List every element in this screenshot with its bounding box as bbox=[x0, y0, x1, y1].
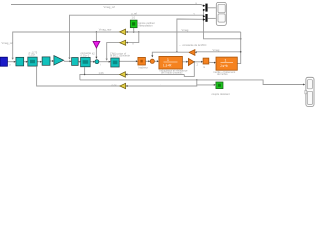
svg-text:1: 1 bbox=[225, 59, 227, 63]
junction dot magenta branch bbox=[96, 31, 97, 32]
svg-text:Vmag_raw: Vmag_raw bbox=[99, 27, 112, 31]
gain teal g1 (right) bbox=[54, 56, 64, 66]
wire R0 speed to displays bbox=[80, 80, 304, 85]
wire back-emf up-branch to mux2 bbox=[177, 19, 204, 52]
block orange J mechanical 1/(Js+b) bbox=[216, 57, 237, 70]
scope1 top-right bbox=[216, 2, 226, 25]
svg-text:0.06: 0.06 bbox=[112, 83, 118, 87]
svg-text:0.25z: 0.25z bbox=[29, 53, 36, 57]
svg-text:la MCC convertie: la MCC convertie bbox=[110, 54, 130, 58]
block orange G gain bbox=[138, 57, 146, 65]
junction dot E stub bbox=[84, 74, 85, 75]
svg-text:hacheur: hacheur bbox=[139, 65, 149, 69]
arrowhead into scope2 bbox=[303, 84, 305, 86]
junction dot green1 stub bbox=[133, 31, 134, 32]
wires mux to scope1 bbox=[208, 8, 216, 19]
block teal F quantizer bbox=[111, 58, 119, 67]
wire R1 from E state port loop bbox=[80, 62, 194, 80]
arrowhead W-main left end down bbox=[12, 58, 14, 60]
arrowhead into sum2 top bbox=[151, 55, 153, 57]
svg-text:Vmag: Vmag bbox=[182, 28, 189, 32]
gain orange Km (right) bbox=[188, 58, 194, 65]
svg-text:couple résistant: couple résistant bbox=[212, 92, 230, 96]
junction dot Ke on omega vertical bbox=[240, 51, 242, 53]
sum1 teal circle bbox=[95, 60, 99, 64]
block teal D bbox=[72, 58, 79, 66]
svg-text:1.06: 1.06 bbox=[99, 71, 105, 75]
junction dot Km out vertical bbox=[194, 61, 195, 62]
arrowhead W2 down bbox=[68, 58, 70, 60]
arrowhead into sum1 top bbox=[95, 57, 97, 59]
block teal E with text bbox=[81, 57, 91, 66]
junction dot back-emf branch bbox=[176, 51, 177, 52]
arrowhead into green2 bbox=[214, 84, 216, 86]
block teal C bbox=[42, 57, 50, 65]
arrowhead t2 input bbox=[126, 42, 128, 44]
wire stub green1 display bbox=[133, 28, 135, 32]
block green2 display speed bbox=[216, 82, 223, 89]
svg-text:de l'arbre: de l'arbre bbox=[217, 72, 228, 76]
gain yellow t1 inline on W-main (left) bbox=[120, 29, 126, 35]
wire omega to mux1 input2 bbox=[204, 10, 241, 39]
block orange I small bbox=[203, 58, 209, 64]
gain orange Ke (left) constante de la MCC bbox=[189, 50, 195, 56]
svg-text:interpolation: interpolation bbox=[138, 24, 153, 28]
arrowhead t2-branch down end bbox=[106, 59, 108, 61]
junction dot R0 branch bbox=[196, 79, 197, 80]
gain yellow t4 (left) on R1 bbox=[120, 72, 126, 78]
wire Ke feedback from omega vertical to sum2 bbox=[152, 52, 240, 56]
arrowhead into Ke base bbox=[195, 51, 197, 53]
wire magenta branch down into sum1 bbox=[95, 32, 97, 58]
block teal A bbox=[16, 57, 24, 66]
svg-text:Vmag_ref: Vmag_ref bbox=[104, 5, 116, 9]
main chain wires bbox=[8, 32, 241, 64]
svg-text:Vmag_ref: Vmag_ref bbox=[2, 41, 14, 45]
junction dot omega W4 bbox=[240, 38, 242, 40]
svg-text:J.s+b: J.s+b bbox=[220, 64, 228, 68]
svg-text:L.s+R: L.s+R bbox=[163, 64, 172, 68]
mux bar1 bbox=[203, 4, 208, 12]
block orange H electrical 1/(Ls+R) bbox=[159, 56, 183, 69]
svg-text:m: m bbox=[203, 66, 205, 69]
svg-text:1.0: 1.0 bbox=[132, 16, 136, 20]
block teal B PI bbox=[28, 57, 37, 66]
wire t2 branch: down, left through gain, down to sum-wire bbox=[107, 32, 139, 59]
arrowhead t1 input bbox=[126, 31, 128, 33]
wire R2 feedback to B bottom bbox=[37, 66, 197, 86]
gain magenta K_raw (triangle down) bbox=[93, 41, 100, 48]
wire branch down to green2 bbox=[197, 80, 214, 85]
sum2 orange circle bbox=[150, 59, 154, 63]
svg-text:u_ref: u_ref bbox=[131, 11, 137, 15]
gain yellow t2 (left) bbox=[120, 40, 126, 45]
chain arrowheads bbox=[14, 60, 216, 64]
block green1 display Vmag bbox=[130, 20, 137, 28]
mux bar2 bbox=[203, 14, 208, 22]
svg-text:← constante de la MCC: ← constante de la MCC bbox=[179, 43, 207, 47]
svg-text:0.25z-1: 0.25z-1 bbox=[81, 53, 90, 57]
arrowhead t3 input bbox=[126, 85, 128, 87]
block blue source bbox=[0, 57, 7, 66]
wire W2 command u to mux2 bbox=[70, 15, 204, 59]
wire W1 Vmag_ref to mux1 bbox=[11, 5, 204, 7]
svg-text:Vmag: Vmag bbox=[213, 48, 220, 52]
gain yellow t3 (left) on R2 bbox=[120, 83, 126, 88]
scope2 bottom-right bbox=[305, 77, 314, 106]
svg-text:1: 1 bbox=[167, 58, 169, 62]
junction dot t2 branch bbox=[138, 31, 139, 32]
wire W-main Vmag long horizontal bbox=[13, 32, 241, 58]
arrowhead t4 input bbox=[126, 73, 128, 75]
